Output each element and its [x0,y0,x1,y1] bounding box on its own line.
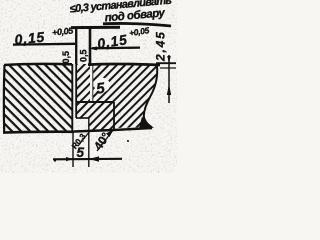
speckle dot right of 40 deg label [127,140,129,142]
svg-text:0,5: 0,5 [61,51,71,64]
40 deg leader arrowhead [106,130,114,138]
R0,3 leader line [78,131,90,146]
right plate curved right edge [144,66,157,128]
2,45 up arrowhead [167,84,171,95]
2,45 dimension line [168,55,170,103]
tongue left vertical line / extension line [75,27,77,118]
2,45 down arrowhead [167,56,171,63]
right dim left arrowhead [89,46,98,50]
2,45 secondary tick [160,67,176,69]
bottom dim left-pointing arrowhead [89,156,99,161]
left plate top edge [4,64,72,65]
tongue hatched [77,64,91,102]
right plate top edge [88,64,160,65]
bottom dimension line [53,158,122,161]
scan speckle [0,0,177,173]
right 0,15+0,05 text [96,25,152,52]
left plate right edge extension down [72,132,74,167]
left dim underline [13,43,75,46]
top dimension line [71,26,120,29]
svg-text:0,5: 0,5 [79,49,89,62]
right plate foot fill [139,117,154,129]
speckle dot in left 0,15 text [30,33,32,35]
right plate left edge (faint) [92,64,94,102]
note underline [103,23,171,26]
right plate hatched body with curved right edge [93,64,157,128]
bottom line under notch and backing [74,128,152,132]
tongue left extension line upper thick part [75,27,77,64]
backing strip hatched (step shape, notch cut bottom-left) [77,102,115,130]
backing strip right edge [113,102,115,129]
backing strip top line [76,101,114,103]
left plate left edge [3,65,6,132]
bottom dim right-pointing arrowhead [66,157,73,161]
tongue right vertical extension line [89,27,92,66]
notch right line + extension down [88,118,90,167]
left 0,15+0,05 text [14,25,76,47]
notch top line [76,117,89,119]
speckle dot at dim line tail [54,159,56,161]
white clearing for 5 label [94,78,110,92]
left plate hatched body [4,64,72,133]
2,45 top extension tick [156,62,176,64]
top dim arrow [76,26,83,30]
left plate right edge [71,64,73,132]
left plate bottom edge [3,130,74,134]
svg-text:2,45: 2,45 [154,30,168,62]
right dim underline [92,46,140,49]
40 deg leader line [97,130,114,152]
